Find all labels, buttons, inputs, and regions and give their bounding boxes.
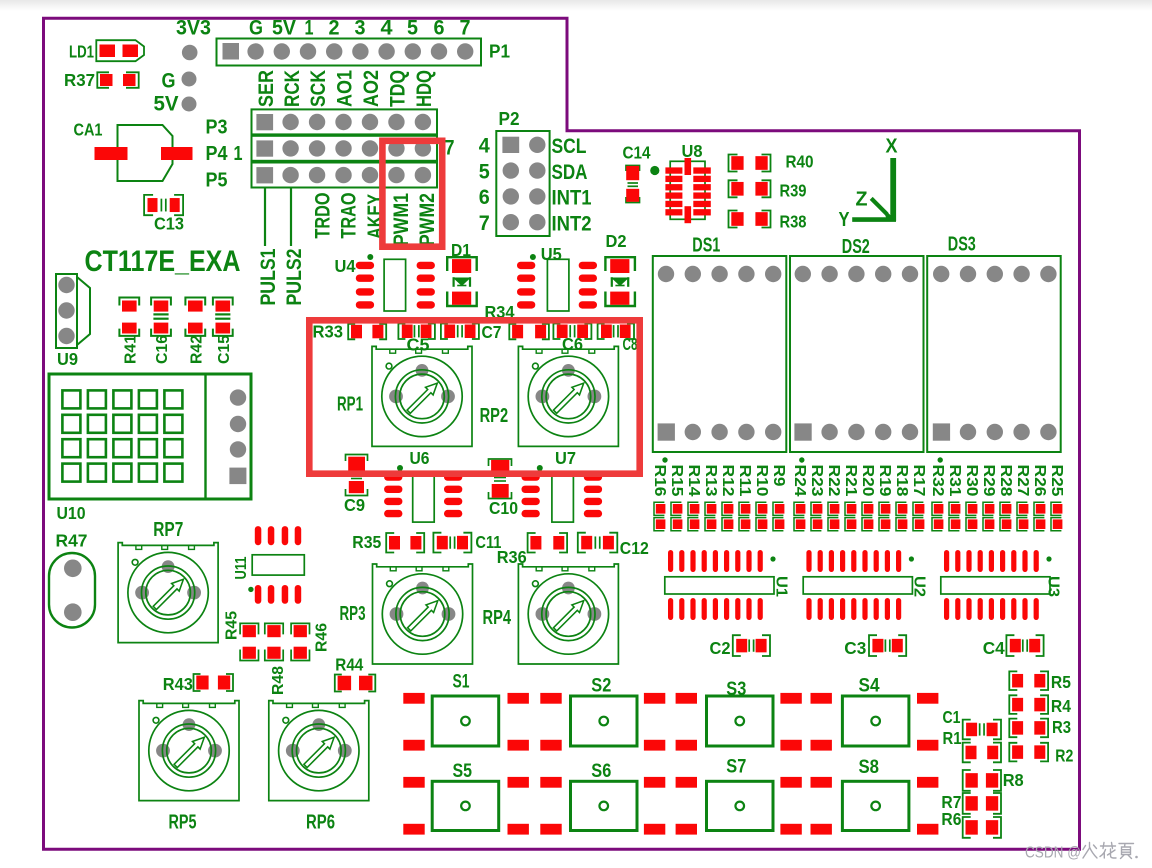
svg-text:U11: U11 — [233, 556, 250, 579]
capacitor CA1 — [95, 125, 193, 181]
svg-text:AO2: AO2 — [360, 70, 383, 107]
capacitor C1 — [963, 720, 1001, 740]
resistor R35 label — [352, 532, 381, 552]
potentiometer RP4 — [518, 564, 618, 664]
resistor network U1 — [665, 550, 776, 620]
resistor R37 — [97, 72, 138, 88]
pad 5V — [182, 97, 197, 112]
resistor network U1 label — [772, 576, 789, 597]
svg-text:3: 3 — [355, 17, 366, 40]
resistor R48 label — [270, 666, 287, 695]
connector P2 label — [499, 109, 520, 129]
resistor pads R24-R17 — [794, 502, 924, 531]
resistor R7 — [963, 793, 1001, 814]
capacitor C9 — [346, 455, 368, 496]
capacitor C10 label — [489, 498, 518, 518]
resistor R42 label — [188, 335, 205, 364]
svg-text:TDQ: TDQ — [386, 70, 409, 107]
svg-text:PWM2: PWM2 — [416, 193, 439, 246]
diode D1 label — [451, 240, 471, 260]
svg-text:R24: R24 — [791, 465, 808, 497]
button S4 label — [859, 676, 880, 697]
svg-text:PWM1: PWM1 — [390, 193, 413, 246]
svg-text:S1: S1 — [453, 672, 470, 693]
resistor R3 — [1009, 719, 1048, 738]
resistor R39 — [729, 180, 771, 197]
svg-text:2: 2 — [329, 17, 340, 40]
svg-text:X: X — [886, 136, 899, 158]
display DS2 label — [842, 236, 870, 258]
svg-text:5: 5 — [407, 17, 418, 40]
resistor R40 label — [786, 152, 814, 172]
svg-text:DS1: DS1 — [692, 235, 720, 257]
svg-text:INT2: INT2 — [552, 212, 592, 235]
button S8 label — [859, 757, 880, 778]
svg-text:S8: S8 — [859, 757, 880, 778]
connector P4 — [252, 136, 438, 161]
svg-text:R12: R12 — [719, 465, 736, 497]
button S6 label — [591, 761, 611, 782]
resistor R6 label — [941, 809, 961, 829]
resistor R38 label — [780, 212, 807, 232]
resistor R34 label — [485, 302, 515, 322]
svg-text:5: 5 — [479, 160, 490, 183]
svg-text:R16: R16 — [651, 465, 668, 497]
button row 1 pads — [403, 693, 938, 751]
resistor R3 label — [1052, 717, 1071, 737]
resistor pads R32-R25 — [932, 502, 1062, 531]
connector R47 label — [56, 531, 88, 551]
IC U4 pin1 dot — [367, 254, 373, 260]
capacitor C3 label — [844, 638, 866, 658]
svg-text:R10: R10 — [753, 465, 770, 497]
svg-text:R6: R6 — [941, 809, 961, 829]
svg-text:U6: U6 — [410, 448, 430, 468]
svg-text:R13: R13 — [702, 465, 719, 497]
resistor network U2 label — [911, 576, 928, 597]
axis label X — [886, 136, 899, 158]
capacitor C16 label — [154, 335, 171, 364]
svg-text:R23: R23 — [808, 465, 825, 497]
axis marker — [852, 158, 896, 221]
resistor R5 — [1009, 671, 1048, 690]
highlight box RP1/RP2 — [309, 320, 639, 473]
potentiometer RP7 — [118, 543, 218, 643]
connector U9 — [56, 274, 90, 348]
svg-text:R30: R30 — [963, 465, 980, 497]
wire PULS1 — [264, 189, 266, 247]
potentiometer RP5 label — [169, 812, 197, 834]
potentiometer RP2 — [518, 346, 618, 446]
svg-text:C15: C15 — [216, 335, 233, 364]
svg-text:C12: C12 — [620, 538, 649, 558]
svg-text:R8: R8 — [1003, 770, 1024, 790]
resistor R45 label — [224, 611, 241, 640]
resistor R33 label — [313, 322, 344, 342]
resistor R35 pads — [386, 533, 424, 553]
svg-text:R45: R45 — [224, 611, 241, 640]
pad 3V3 — [182, 45, 198, 61]
P2 signal labels SCL SDA INT1 INT2 — [552, 135, 592, 235]
svg-text:C6: C6 — [562, 334, 583, 354]
svg-text:R32: R32 — [929, 465, 946, 497]
resistor labels R16-R9 — [651, 465, 787, 497]
svg-text:R29: R29 — [980, 465, 997, 497]
button S2 — [571, 696, 638, 746]
net label AKEY — [364, 194, 387, 239]
resistor R4 label — [1051, 696, 1071, 716]
svg-text:R43: R43 — [163, 674, 193, 694]
svg-text:6: 6 — [434, 17, 445, 40]
resistor labels R24-R17 — [791, 465, 927, 497]
capacitor C8 label — [623, 334, 638, 354]
svg-text:R22: R22 — [825, 465, 842, 497]
resistor R2 — [1009, 743, 1048, 762]
connector P2 — [496, 131, 549, 236]
svg-text:5V: 5V — [272, 17, 296, 40]
IC U6 — [384, 473, 462, 522]
svg-text:G: G — [162, 70, 176, 93]
svg-text:C1: C1 — [943, 707, 961, 727]
button S3 label — [726, 679, 746, 700]
potentiometer RP4 label — [483, 607, 512, 629]
button S2 label — [591, 676, 611, 697]
svg-text:U1: U1 — [772, 576, 789, 597]
resistor R46 label — [314, 623, 331, 652]
pad G — [182, 72, 197, 87]
capacitor C15 — [213, 298, 233, 336]
resistor R44 label — [335, 655, 363, 675]
svg-text:U9: U9 — [57, 349, 78, 369]
IC U4 — [356, 259, 435, 311]
svg-text:R42: R42 — [188, 335, 205, 364]
svg-text:RP4: RP4 — [483, 607, 512, 629]
svg-text:RP5: RP5 — [169, 812, 197, 834]
pad pair near R33 — [348, 324, 386, 340]
capacitor pads C5b — [441, 324, 479, 340]
potentiometer RP1 label — [337, 394, 363, 416]
svg-text:SCL: SCL — [552, 135, 587, 158]
svg-text:R4: R4 — [1051, 696, 1071, 716]
capacitor C15 label — [216, 335, 233, 364]
svg-text:SDA: SDA — [552, 161, 588, 184]
IC U6 pin1 dot — [397, 465, 403, 471]
svg-text:4: 4 — [381, 17, 393, 40]
svg-text:Y: Y — [839, 209, 851, 231]
resistor R8 — [963, 770, 1001, 791]
resistor R5 label — [1051, 672, 1071, 692]
svg-text:R5: R5 — [1051, 672, 1071, 692]
potentiometer RP1 — [372, 346, 472, 446]
resistor R41 — [119, 298, 139, 336]
resistors R45 R46 pad grid — [240, 623, 309, 660]
resistor R43 label — [163, 674, 193, 694]
svg-text:HDQ: HDQ — [413, 70, 436, 107]
svg-text:R1: R1 — [943, 728, 962, 748]
connector P3 — [252, 109, 438, 134]
connector P3 label — [206, 117, 228, 139]
svg-text:PULS1: PULS1 — [257, 248, 280, 305]
svg-text:SCK: SCK — [307, 70, 330, 107]
node dot under DS3 — [938, 457, 943, 462]
IC U7 pin1 dot — [537, 465, 543, 471]
connector R47 — [49, 553, 95, 628]
button S7 label — [726, 756, 746, 777]
svg-text:C10: C10 — [489, 498, 518, 518]
svg-text:R31: R31 — [946, 465, 963, 497]
resistor R39 label — [780, 181, 807, 201]
IC U8 — [665, 158, 710, 223]
capacitor C2 label — [710, 638, 731, 658]
resistor R44 — [335, 675, 376, 692]
potentiometer RP6 — [269, 701, 369, 801]
svg-text:R25: R25 — [1048, 465, 1065, 497]
svg-text:C2: C2 — [710, 638, 731, 658]
resistor network U2 — [803, 550, 914, 620]
svg-text:CT117E_EXA: CT117E_EXA — [85, 245, 241, 278]
svg-text:7: 7 — [460, 17, 471, 40]
svg-text:7: 7 — [479, 212, 490, 235]
IC U8 label — [682, 141, 703, 161]
svg-text:S2: S2 — [591, 676, 611, 697]
svg-text:U2: U2 — [911, 576, 928, 597]
svg-text:R21: R21 — [842, 465, 859, 497]
svg-text:7: 7 — [445, 137, 455, 160]
button row 2 pads — [403, 777, 938, 835]
svg-text:R35: R35 — [352, 532, 381, 552]
capacitor C13 label — [154, 214, 184, 234]
board title CT117E_EXA — [85, 245, 241, 278]
net label PWM2 — [416, 193, 439, 246]
svg-text:S4: S4 — [859, 676, 880, 697]
svg-text:C7: C7 — [482, 322, 502, 342]
button S3 — [707, 696, 774, 746]
svg-text:R20: R20 — [859, 465, 876, 497]
svg-text:RP2: RP2 — [480, 405, 509, 427]
connector P5 label — [206, 170, 228, 192]
button S6 — [571, 781, 638, 830]
capacitor C12 label — [620, 538, 649, 558]
svg-text:6: 6 — [479, 186, 490, 209]
capacitor C5 label — [407, 335, 430, 355]
svg-text:TRDO: TRDO — [311, 193, 334, 239]
net label PULS1 — [257, 248, 280, 305]
display DS3 label — [948, 234, 976, 256]
svg-text:RP7: RP7 — [153, 519, 183, 541]
svg-text:C14: C14 — [623, 143, 651, 163]
svg-text:RP3: RP3 — [340, 603, 366, 625]
resistor R42 — [185, 298, 205, 336]
display DS3 — [927, 256, 1060, 452]
svg-text:U3: U3 — [1044, 576, 1061, 597]
svg-text:R37: R37 — [64, 70, 95, 90]
svg-text:U4: U4 — [335, 256, 356, 276]
display DS2 — [790, 256, 924, 452]
capacitor C11 — [433, 533, 471, 553]
svg-text:DS2: DS2 — [842, 236, 870, 258]
capacitor C3 — [869, 635, 906, 656]
capacitor C6 label — [562, 334, 583, 354]
resistor R38 — [729, 211, 771, 228]
P4 pin1 label — [234, 143, 243, 165]
resistor labels R32-R25 — [929, 465, 1065, 497]
display DS1 label — [692, 235, 720, 257]
svg-text:AO1: AO1 — [334, 70, 357, 107]
resistor network U3 label — [1044, 576, 1061, 597]
svg-text:R28: R28 — [997, 465, 1014, 497]
net label TRAO — [337, 193, 360, 239]
svg-text:P1: P1 — [489, 42, 510, 62]
net label PULS2 — [283, 249, 306, 306]
svg-text:P5: P5 — [206, 170, 228, 192]
svg-text:1: 1 — [305, 17, 314, 40]
svg-text:R44: R44 — [335, 655, 363, 675]
svg-text:R18: R18 — [893, 465, 910, 497]
resistor R43 — [194, 674, 234, 691]
svg-text:R17: R17 — [910, 465, 927, 497]
svg-text:R40: R40 — [786, 152, 814, 172]
IC U5 — [517, 259, 597, 311]
svg-text:TRAO: TRAO — [337, 193, 360, 239]
svg-text:R3: R3 — [1052, 717, 1071, 737]
P2 pin numbers 4 5 6 7 — [479, 135, 490, 235]
svg-text:P4: P4 — [206, 143, 229, 165]
svg-text:R38: R38 — [780, 212, 807, 232]
IC U7 — [522, 473, 603, 522]
resistor R8 label — [1003, 770, 1024, 790]
svg-text:PULS2: PULS2 — [283, 249, 306, 306]
resistor R4 — [1009, 695, 1048, 714]
svg-text:R15: R15 — [668, 465, 685, 497]
svg-text:3V3: 3V3 — [176, 17, 211, 40]
potentiometer RP5 — [139, 701, 239, 801]
label 3V3 — [176, 17, 211, 40]
svg-text:S6: S6 — [591, 761, 611, 782]
svg-text:4: 4 — [479, 135, 490, 158]
potentiometer RP3 label — [340, 603, 366, 625]
svg-text:U5: U5 — [541, 244, 562, 264]
svg-text:SER: SER — [255, 70, 278, 107]
capacitor C9 label — [344, 495, 365, 515]
svg-text:1: 1 — [234, 143, 243, 165]
capacitor C12 — [578, 533, 618, 553]
P3 column labels SER RCK SCK AO1 AO2 TDQ HDQ — [255, 70, 436, 107]
IC U11 pin1 dot — [248, 587, 253, 592]
node dot under DS2 — [799, 457, 804, 462]
svg-text:R9: R9 — [770, 465, 787, 487]
diode D1 — [447, 257, 477, 306]
svg-text:RCK: RCK — [281, 70, 304, 107]
button S7 — [707, 781, 774, 830]
button S8 — [842, 781, 909, 830]
connector P1 — [217, 39, 482, 66]
svg-text:R26: R26 — [1031, 465, 1048, 497]
svg-text:CA1: CA1 — [74, 120, 103, 140]
node dot near C14 — [650, 166, 659, 175]
svg-text:R46: R46 — [314, 623, 331, 652]
label G — [162, 70, 176, 93]
potentiometer RP2 label — [480, 405, 509, 427]
IC U4 label — [335, 256, 356, 276]
svg-text:R41: R41 — [122, 335, 139, 364]
keypad U10 label — [57, 503, 86, 523]
capacitor C14 — [626, 166, 640, 203]
connector P4 label — [206, 143, 229, 165]
LED LD1 label — [69, 42, 94, 62]
svg-text:C16: C16 — [154, 335, 171, 364]
label 5V — [154, 93, 179, 116]
potentiometer RP7 label — [153, 519, 183, 541]
capacitor C4 — [1006, 635, 1043, 656]
svg-text:R27: R27 — [1014, 465, 1031, 497]
connector P5 — [252, 163, 438, 188]
capacitor C13 — [144, 195, 183, 215]
button S5 — [432, 781, 499, 830]
diode D2 — [605, 257, 635, 306]
connector P1 label — [489, 42, 510, 62]
capacitor CA1 label — [74, 120, 103, 140]
svg-text:R33: R33 — [313, 322, 344, 342]
svg-text:RP6: RP6 — [306, 812, 335, 834]
wire PULS2 — [290, 189, 292, 247]
net label PWM1 — [390, 193, 413, 246]
svg-text:R14: R14 — [685, 465, 702, 497]
potentiometer RP3 — [373, 564, 473, 664]
svg-text:Z: Z — [856, 189, 868, 211]
capacitor C1 label — [943, 707, 961, 727]
svg-text:C3: C3 — [844, 638, 866, 658]
resistor pads R16-R9 — [654, 502, 784, 531]
svg-text:R2: R2 — [1055, 746, 1073, 766]
resistor R41 label — [122, 335, 139, 364]
IC U7 label — [555, 448, 576, 468]
svg-text:P2: P2 — [499, 109, 520, 129]
svg-text:R19: R19 — [876, 465, 893, 497]
node dot under DS1 — [662, 457, 667, 462]
svg-text:U7: U7 — [555, 448, 576, 468]
svg-text:S7: S7 — [726, 756, 746, 777]
resistor R40 — [729, 155, 771, 172]
top page gradient — [0, 0, 1152, 11]
resistor R1 label — [943, 728, 962, 748]
potentiometer RP6 label — [306, 812, 335, 834]
resistor network U3 — [941, 550, 1052, 620]
LED LD1 — [96, 40, 144, 61]
capacitor C2 — [733, 635, 770, 656]
svg-text:DS3: DS3 — [948, 234, 976, 256]
button S1 label — [453, 672, 470, 693]
resistor R6 — [963, 817, 1001, 838]
net label TRDO — [311, 193, 334, 239]
IC U5 pin1 dot — [530, 254, 536, 260]
svg-text:R47: R47 — [56, 531, 88, 551]
svg-text:5V: 5V — [154, 93, 179, 116]
P1 pin labels G 5V 1-7 — [249, 17, 471, 40]
svg-text:CSDN @: CSDN @ — [1025, 845, 1081, 862]
svg-text:D2: D2 — [606, 231, 627, 251]
button S1 — [432, 696, 499, 746]
svg-text:RP1: RP1 — [337, 394, 363, 416]
IC U6 label — [410, 448, 430, 468]
resistor R37 label — [64, 70, 95, 90]
svg-text:R39: R39 — [780, 181, 807, 201]
svg-text:U10: U10 — [57, 503, 86, 523]
P4 pin7 label — [445, 137, 455, 160]
resistor R1 — [963, 743, 1001, 763]
svg-text:INT1: INT1 — [552, 187, 592, 210]
svg-text:C9: C9 — [344, 495, 365, 515]
capacitor C7 label — [482, 322, 502, 342]
